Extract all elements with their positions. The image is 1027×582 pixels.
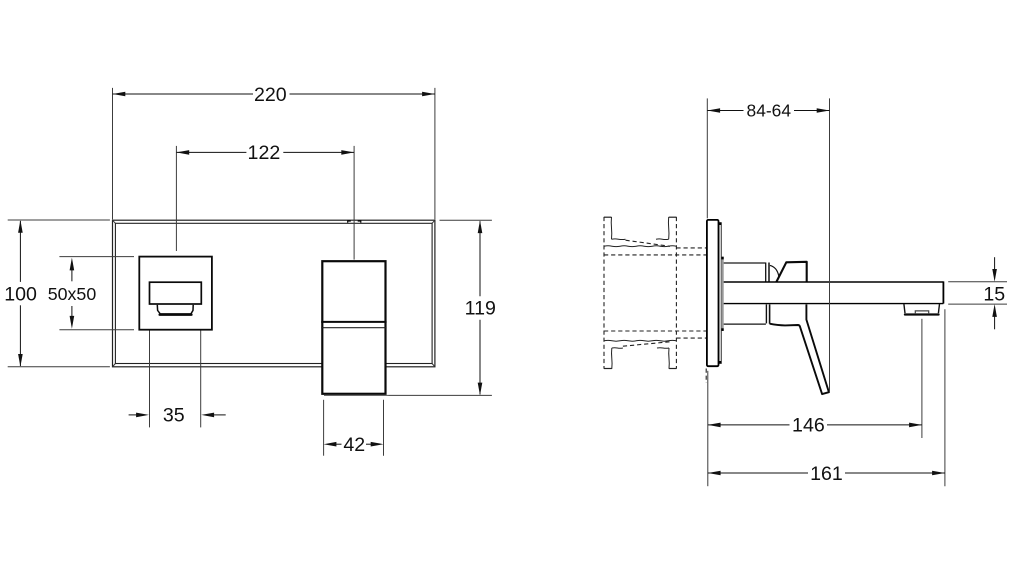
svg-text:84-64: 84-64 (747, 101, 792, 121)
dimension 84-64 label (747, 101, 792, 121)
dimension 119 label (465, 298, 496, 320)
dimension 15 label (983, 283, 1005, 305)
handle bottom hairline (324, 394, 389, 396)
handle base neck bottom line (724, 323, 766, 325)
dimension 50x50 label (48, 284, 97, 304)
svg-text:100: 100 (4, 283, 37, 305)
svg-text:161: 161 (810, 463, 843, 485)
svg-text:119: 119 (465, 298, 496, 320)
minimum wall line dashed stub (705, 369, 707, 384)
svg-text:50x50: 50x50 (48, 284, 97, 304)
dimension 146 line with arrows (708, 423, 922, 428)
dimension 146 label (792, 415, 825, 437)
aerator outline front view (157, 305, 193, 315)
concealed body dashed lines bottom (604, 331, 706, 338)
dimension 220 label (254, 84, 287, 106)
square spout cutout (139, 257, 212, 330)
dimension 100 line with arrows (18, 220, 23, 367)
handle base neck top line (724, 262, 766, 264)
concealed body dashed lines top (604, 248, 706, 255)
svg-text:146: 146 (792, 415, 825, 437)
dimension 42 arrows (324, 442, 384, 447)
mounting flange strip (721, 257, 723, 331)
dimension 50x50 arrows (70, 258, 75, 329)
dimension 42 extension lines (324, 400, 384, 456)
plate top edge notch marks (348, 221, 361, 223)
dimension 15 extension lines (948, 282, 1007, 304)
svg-text:42: 42 (343, 434, 365, 456)
dimension 15 arrows (992, 257, 997, 329)
dimension 35 label (163, 404, 185, 426)
dimension 220 extension lines (113, 88, 435, 220)
handle base ring below spout (766, 304, 769, 323)
dimension 100 label (4, 283, 37, 305)
dimension 119 extension lines (389, 220, 492, 395)
handle lever step lines (321, 322, 386, 328)
dimension 50x50 extension lines (59, 257, 134, 330)
dimension 35 extension lines (150, 309, 201, 428)
svg-text:35: 35 (163, 404, 185, 426)
handle base ring above spout (766, 263, 769, 282)
dimension 100 extension lines (8, 220, 110, 367)
spout side view (724, 281, 944, 303)
wall surface dashed line right (675, 217, 677, 369)
dimension 42 label (343, 434, 365, 456)
dimension 161 line with arrows (708, 471, 945, 476)
dimension 84-64 extension lines (707, 98, 829, 392)
lever pivot arc (770, 265, 779, 276)
svg-text:220: 220 (254, 84, 287, 106)
wall bottom break symbol (604, 340, 676, 368)
spout aerator side view (904, 304, 940, 315)
wall top break symbol (604, 217, 676, 247)
svg-text:15: 15 (983, 283, 1005, 305)
wall plate front view outer outline (113, 220, 435, 367)
handle front view body (322, 261, 385, 394)
dimension 35 outside arrows (129, 413, 226, 418)
wall plate corner chamfer lines (113, 220, 435, 367)
wall surface dashed line left (603, 217, 605, 369)
dimension 84-64 line with arrows (707, 108, 829, 113)
dimension 146 extension lines (708, 319, 922, 486)
escutcheon plate side view (707, 220, 721, 366)
dimension 122 label (248, 142, 281, 164)
lever arm side view (770, 304, 829, 394)
spout face rectangle (150, 282, 202, 304)
lever back end above spout (776, 262, 806, 282)
dimension 220 line with arrows (113, 92, 435, 97)
dimension 161 label (810, 463, 843, 485)
wall plate front view inner outline (115, 223, 432, 363)
dimension 122 line with arrows (176, 150, 354, 155)
dimension 161 extension line right (944, 309, 946, 486)
svg-text:122: 122 (248, 142, 281, 164)
dimension 122 extension lines (176, 146, 354, 260)
dimension 119 line with arrows (478, 220, 483, 395)
